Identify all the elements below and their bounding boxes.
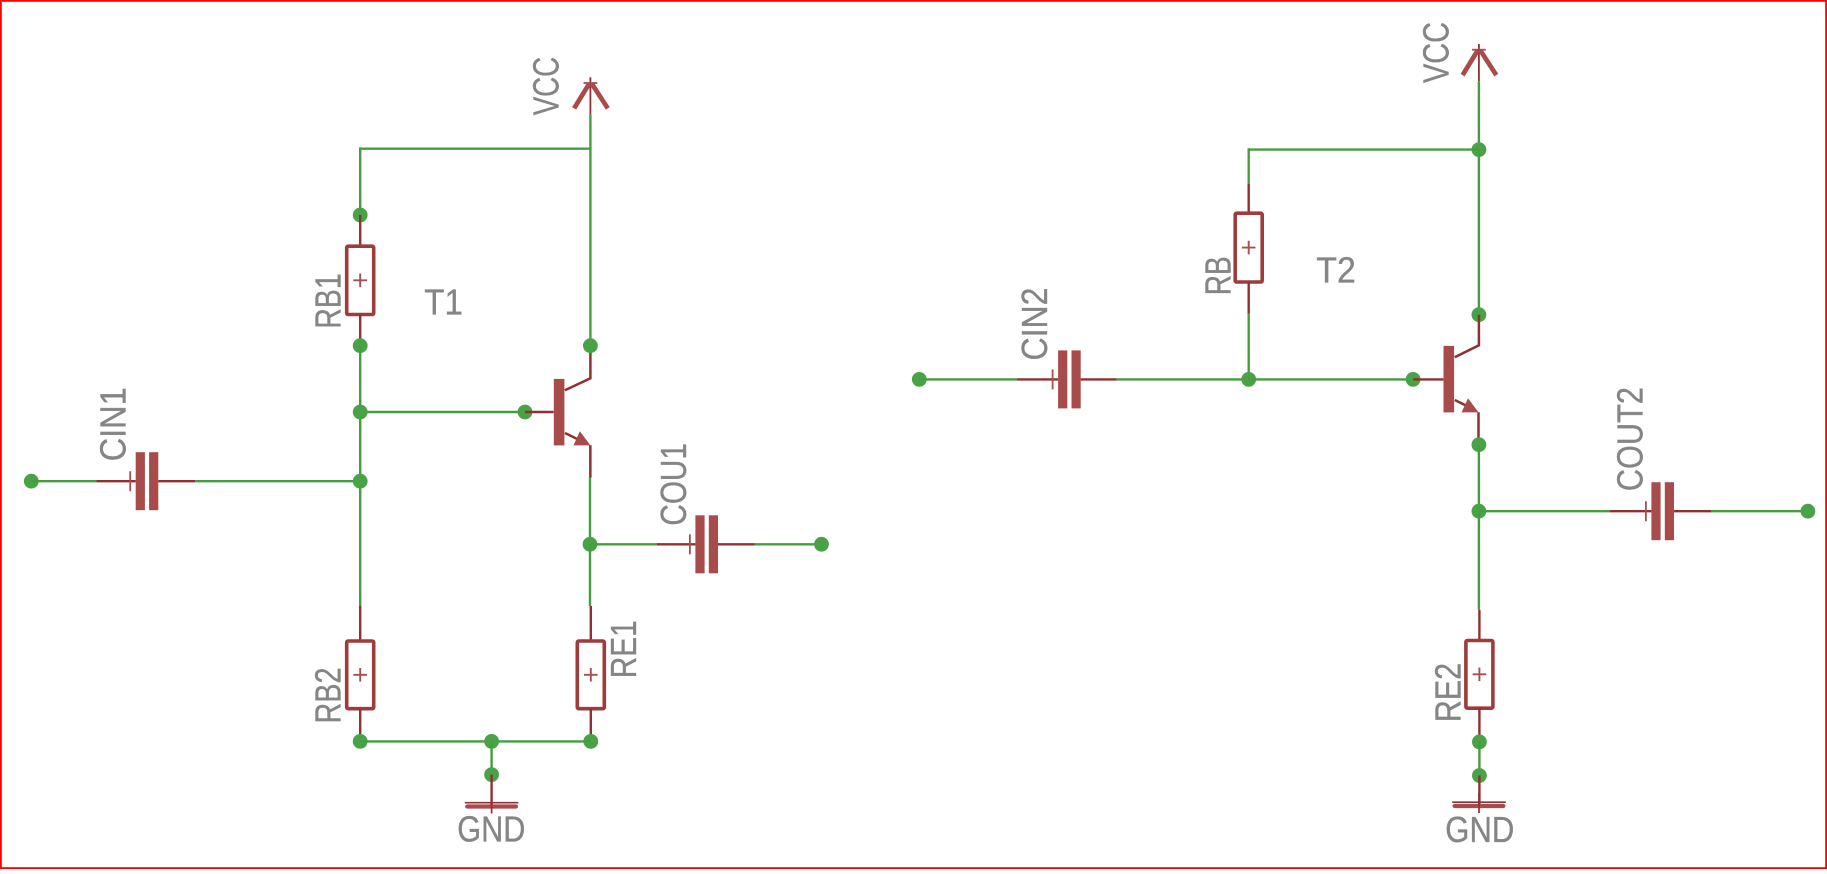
junction RB2 bottom bbox=[353, 734, 368, 749]
svg-text:T1: T1 bbox=[424, 282, 463, 323]
pin CIN2-2 bbox=[1081, 378, 1117, 380]
node OUT2 terminal bbox=[1801, 504, 1816, 519]
power VCC (left) bbox=[589, 77, 591, 114]
pin RE2-1 bbox=[1478, 610, 1480, 641]
junction RE1 bottom bbox=[583, 734, 598, 749]
pin RE1-2 bbox=[590, 709, 592, 742]
ground symbol (right) bbox=[1452, 801, 1506, 803]
junction T1 collector bbox=[583, 338, 598, 353]
pin GND (left) bbox=[490, 775, 492, 806]
transistor T2 bbox=[1444, 346, 1455, 413]
junction RB1 bottom pin bbox=[353, 338, 368, 353]
resistor RE1 bbox=[577, 641, 604, 709]
svg-text:RB2: RB2 bbox=[308, 668, 349, 724]
wire RB1 to base node bbox=[359, 346, 361, 412]
wire CIN2 to RB node bbox=[1117, 378, 1249, 380]
pin COUT2-2 bbox=[1674, 510, 1711, 512]
node IN1 terminal bbox=[24, 474, 39, 489]
wire VCC stub (right) bbox=[1478, 81, 1480, 149]
capacitor COU1 bbox=[695, 515, 704, 573]
wire out node to COU1 bbox=[590, 543, 657, 545]
wire base row (right) bbox=[1249, 378, 1413, 380]
wire input (left) bbox=[31, 480, 96, 482]
junction out node (left) bbox=[583, 537, 598, 552]
svg-text:CIN2: CIN2 bbox=[1014, 288, 1055, 361]
wire CIN1 node down to RB2 bbox=[359, 481, 361, 606]
wire input (right) bbox=[919, 378, 1017, 380]
pin CIN1-1 bbox=[96, 480, 135, 482]
wire output (left) bbox=[755, 543, 822, 545]
svg-text:RE2: RE2 bbox=[1427, 663, 1468, 723]
pin GND (right) bbox=[1478, 776, 1480, 807]
svg-text:COUT2: COUT2 bbox=[1610, 387, 1651, 491]
pin RB2-1 bbox=[359, 606, 361, 641]
wire base node to CIN1 node bbox=[359, 412, 361, 481]
pin RB-1 bbox=[1247, 184, 1249, 213]
wire base row (left) bbox=[360, 411, 525, 413]
pin RB2-2 bbox=[359, 709, 361, 742]
wire out node to COUT2 bbox=[1479, 510, 1610, 512]
capacitor CIN1 bbox=[136, 452, 145, 510]
svg-text:CIN1: CIN1 bbox=[92, 387, 133, 461]
wire RE2 to gnd pin bbox=[1478, 742, 1480, 776]
pin T1 base bbox=[525, 411, 554, 413]
junction CIN1 node bbox=[353, 474, 368, 489]
junction gnd pin (left) bbox=[484, 767, 499, 782]
junction T2 collector bbox=[1472, 307, 1487, 322]
wire VCC stub (left) bbox=[589, 115, 591, 149]
svg-text:GND: GND bbox=[457, 808, 525, 849]
pin RE2-2 bbox=[1478, 708, 1480, 742]
ground symbol (left) bbox=[465, 802, 519, 804]
resistor RB1 bbox=[347, 246, 374, 314]
svg-text:COU1: COU1 bbox=[653, 443, 694, 526]
capacitor COUT2 bbox=[1651, 482, 1660, 540]
pin COUT2-1 bbox=[1610, 510, 1651, 512]
node IN2 terminal bbox=[912, 372, 927, 387]
svg-text:VCC: VCC bbox=[1415, 22, 1456, 83]
wire out node down to RE2 bbox=[1478, 511, 1480, 610]
junction VCC rail (right) bbox=[1472, 142, 1487, 157]
wire collector rail (left) bbox=[589, 147, 591, 345]
wire out node down to RE1 bbox=[589, 544, 591, 606]
pin CIN2-1 bbox=[1017, 378, 1058, 380]
junction base pin T1 bbox=[518, 405, 533, 420]
wire emitter to out node (right) bbox=[1478, 445, 1480, 512]
wire output (right) bbox=[1711, 510, 1808, 512]
junction base node (left) bbox=[353, 405, 368, 420]
wire CIN1 to divider bbox=[195, 480, 360, 482]
pin RB1-1 bbox=[359, 215, 361, 246]
junction RB1 top pin bbox=[353, 208, 368, 223]
pin COU1-2 bbox=[718, 543, 755, 545]
pin T2 base bbox=[1413, 378, 1443, 380]
junction out node (right) bbox=[1472, 504, 1487, 519]
capacitor CIN2 bbox=[1058, 350, 1067, 408]
wire top drop to RB bbox=[1247, 148, 1249, 184]
svg-text:GND: GND bbox=[1445, 809, 1514, 850]
junction RE2 bottom bbox=[1472, 735, 1487, 750]
resistor RB bbox=[1235, 213, 1262, 282]
svg-text:RB: RB bbox=[1198, 256, 1239, 295]
pin RB-2 bbox=[1247, 282, 1249, 314]
junction gnd pin (right) bbox=[1472, 768, 1487, 783]
junction base pin T2 bbox=[1406, 372, 1421, 387]
pin COU1-1 bbox=[657, 543, 696, 545]
wire top-left drop (left) bbox=[359, 147, 361, 215]
wire collector drop (right) bbox=[1478, 150, 1480, 315]
svg-text:T2: T2 bbox=[1316, 250, 1356, 291]
power VCC (right) bbox=[1478, 44, 1480, 81]
wire gnd stub (left) bbox=[490, 741, 492, 774]
pin RE1-1 bbox=[590, 606, 592, 641]
pin CIN1-2 bbox=[158, 480, 195, 482]
transistor T1 bbox=[554, 379, 565, 446]
pin RB1-2 bbox=[359, 315, 361, 346]
svg-text:RB1: RB1 bbox=[308, 273, 349, 329]
junction RB base node bbox=[1241, 372, 1256, 387]
wire bottom rail (left) bbox=[360, 740, 591, 742]
junction T2 emitter pin bbox=[1472, 437, 1487, 452]
junction gnd tap (left) bbox=[484, 734, 499, 749]
wire top rail (right) bbox=[1249, 148, 1479, 150]
wire emitter to out node bbox=[589, 478, 591, 545]
wire top rail (left) bbox=[360, 147, 590, 149]
resistor RE2 bbox=[1466, 641, 1493, 709]
node OUT1 terminal bbox=[814, 537, 829, 552]
svg-text:RE1: RE1 bbox=[603, 620, 644, 678]
wire RB to base node (right) bbox=[1247, 314, 1249, 380]
svg-text:VCC: VCC bbox=[526, 57, 567, 116]
resistor RB2 bbox=[347, 641, 374, 709]
